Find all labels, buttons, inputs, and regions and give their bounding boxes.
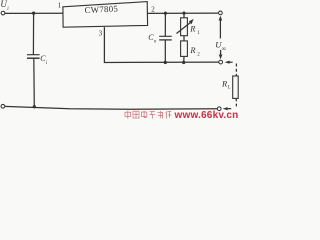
node junction Ci top xyxy=(32,12,35,15)
node junction R1 top xyxy=(182,11,185,14)
wire R2 lower lead xyxy=(183,56,185,62)
wire input to regulator pin 1 xyxy=(5,12,63,14)
wire Ci lower lead xyxy=(33,58,36,106)
node junction Co bottom xyxy=(164,61,167,64)
wire dashed load connection top arrow xyxy=(225,61,237,76)
wire R1 upper lead xyxy=(183,13,185,18)
wire R1 to R2 xyxy=(183,36,185,41)
node junction Ci bottom xyxy=(33,105,36,108)
svg-text:CW7805: CW7805 xyxy=(84,3,118,15)
wire pin2 to output terminal xyxy=(148,12,219,14)
wire Uoc arrow up xyxy=(219,16,223,39)
svg-text:R: R xyxy=(189,24,195,33)
capacitor Ci xyxy=(27,55,40,59)
resistor RL load xyxy=(233,76,239,98)
svg-text:2: 2 xyxy=(151,5,155,13)
node junction Co top xyxy=(164,12,167,15)
svg-text:R: R xyxy=(221,80,227,89)
node output terminal bottom-right xyxy=(217,107,221,111)
node output terminal bottom xyxy=(219,60,223,64)
node junction R2 bottom xyxy=(182,61,185,64)
svg-text:∞: ∞ xyxy=(222,45,227,52)
node ground terminal bottom-left xyxy=(1,104,5,108)
svg-text:L: L xyxy=(228,85,231,90)
wire Co upper lead xyxy=(164,13,166,36)
op-amp U1 CW7805 regulator box xyxy=(63,2,148,28)
wire Co lower lead xyxy=(164,40,166,62)
wire pin3 ground lead xyxy=(104,27,218,62)
resistor R1 (adjustable) xyxy=(181,18,188,36)
wire bottom rail xyxy=(5,106,218,109)
arrow of adjustable resistor R1 xyxy=(177,19,194,34)
wire Ci upper lead xyxy=(32,13,34,54)
svg-text:3: 3 xyxy=(99,30,103,38)
svg-text:R: R xyxy=(189,46,195,55)
node Ui input terminal xyxy=(1,11,5,15)
svg-text:1: 1 xyxy=(58,2,62,10)
wire dashed load connection bottom arrow xyxy=(223,99,237,111)
svg-text:www.66kv.cn: www.66kv.cn xyxy=(174,110,239,120)
node output terminal top xyxy=(219,11,223,15)
capacitor Co xyxy=(159,36,172,40)
resistor R2 xyxy=(181,41,188,57)
wire Uoc arrow down xyxy=(219,50,223,59)
watermark 中国电子制作 (stylised strokes) xyxy=(125,111,171,119)
